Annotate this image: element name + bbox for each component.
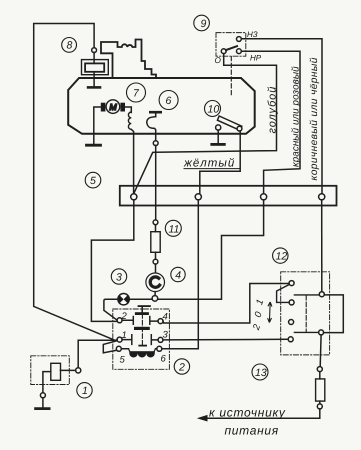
wire: glow switch terminal 3 to ignition switch 12 terminal 4 xyxy=(163,338,288,341)
breaker moving arm xyxy=(147,117,156,141)
wire: NZ contact to brown wire down to block xyxy=(241,39,322,194)
svg-text:голубой: голубой xyxy=(267,86,279,134)
glow plug 1 dash-dot housing xyxy=(31,356,70,385)
ignition switch movable contacts xyxy=(294,295,319,333)
breaker contact 6 : fixed contact bar xyxy=(150,111,160,114)
glow/start switch 2 dash-dot housing xyxy=(113,309,170,369)
wire: coil down to terminal block xyxy=(131,129,133,193)
svg-text:5: 5 xyxy=(90,175,96,187)
circled item numbers xyxy=(62,15,288,398)
text: glow switch terminal numbers xyxy=(120,311,169,366)
svg-text:4: 4 xyxy=(175,270,181,282)
svg-text:M: M xyxy=(109,102,117,112)
svg-text:10: 10 xyxy=(208,104,220,116)
wire: glow switch terminal 4 up-over to ignition switch 12 xyxy=(163,284,289,324)
wire: sensor 1 to terminal 1 of glow switch xyxy=(78,340,117,368)
svg-text:12: 12 xyxy=(276,251,288,263)
svg-text:9: 9 xyxy=(201,18,207,30)
ground (spark plug to engine mass) xyxy=(88,86,100,89)
wire: lamp to glow switch terminal 2 xyxy=(104,299,118,320)
svg-text:3: 3 xyxy=(116,272,122,284)
switch 9 dash-dot housing xyxy=(216,33,246,57)
wire: block circle4 down to ignition switch 12 terminal xyxy=(321,200,323,292)
ignition switch 12 dash-dot housing xyxy=(281,272,330,355)
ignition switch lever xyxy=(277,285,290,303)
svg-text:НР: НР xyxy=(250,54,262,63)
svg-text:11: 11 xyxy=(169,224,180,236)
wire: lever right terminal down, elbow to terminal block circle 2 xyxy=(200,131,240,194)
terminal block 5 (connector strip) xyxy=(120,186,337,206)
glow switch contact row 1-3 xyxy=(122,327,158,345)
jumper strap terminals 1-5 xyxy=(103,341,116,353)
wire to power source with arrow xyxy=(207,409,320,418)
jumper on right side of switch 12 xyxy=(324,295,344,333)
svg-text:1: 1 xyxy=(122,330,127,341)
wire: common O down and to breaker (blue/yellow wire) xyxy=(134,54,277,194)
wire: lever left terminal to ground xyxy=(217,130,219,143)
engine body outline xyxy=(68,78,255,134)
wire: switch 12 to fuse 13 xyxy=(319,335,322,367)
svg-text:коричневый или чёрный: коричневый или чёрный xyxy=(309,57,320,180)
svg-text:6: 6 xyxy=(166,95,172,107)
wire: block circle2 down to glow switch terminal 6 xyxy=(162,200,199,349)
wire: motor left brush to ground xyxy=(94,107,102,143)
svg-text:4: 4 xyxy=(163,312,168,323)
suppression resistor 8 (spark-plug screen box) xyxy=(82,53,109,87)
mechanical link in glow switch xyxy=(141,307,143,345)
wire: motor right brush to choke coil xyxy=(125,107,132,113)
svg-text:НЗ: НЗ xyxy=(247,30,258,39)
control lamp 3 (warning light) xyxy=(118,294,129,305)
ground (lever) xyxy=(212,143,225,146)
switch 9 contacts xyxy=(221,37,241,54)
wire: block circle3 down elbow to indicator wire xyxy=(157,200,263,299)
magneto silhouette on engine top xyxy=(101,40,156,79)
ignition switch terminals xyxy=(288,281,324,342)
svg-text:питания: питания xyxy=(225,424,279,438)
glow plug indicator 4 xyxy=(146,264,165,301)
svg-text:6: 6 xyxy=(161,354,167,365)
ground (sensor) xyxy=(36,407,50,410)
wire: block circle1 down elbow to glow switch terminal 2 xyxy=(91,200,133,322)
wire: breaker terminal down through terminal block to resistor chain xyxy=(155,146,157,220)
glow switch terminals xyxy=(116,318,163,352)
ground (motor) xyxy=(87,144,101,147)
svg-text:О: О xyxy=(215,56,222,65)
svg-text:жёлтый: жёлтый xyxy=(183,158,235,170)
svg-text:5: 5 xyxy=(120,355,126,366)
svg-text:красный или розовый: красный или розовый xyxy=(291,66,302,167)
wire: top-left long wire from spark plug to connector of terminal 1 xyxy=(34,24,116,341)
mechanical dashed link from switch 9 to lever 10 xyxy=(230,57,232,98)
node: sensor connector xyxy=(76,368,81,373)
glow switch contact row 2-4 xyxy=(122,305,158,324)
svg-text:к источнику: к источнику xyxy=(209,406,286,420)
svg-text:13: 13 xyxy=(255,367,267,379)
svg-text:8: 8 xyxy=(67,40,73,52)
svg-text:3: 3 xyxy=(163,330,169,341)
node: breaker terminal xyxy=(153,141,158,146)
sensor 1 element xyxy=(40,363,75,407)
text: ignition switch positions 2 0 1 with arrow xyxy=(251,298,272,332)
svg-text:1: 1 xyxy=(82,385,88,397)
inductor choke coil xyxy=(128,112,131,129)
resistor 11 (ballast) xyxy=(151,220,160,264)
svg-text:2: 2 xyxy=(178,362,185,374)
node: spark plug terminal xyxy=(92,48,97,53)
fuse 13 (in supply lead) xyxy=(316,367,325,409)
magneto armature M (item 7) xyxy=(101,100,125,114)
stop lever 10 (cam) xyxy=(216,116,242,131)
svg-text:2: 2 xyxy=(121,311,128,322)
heater coil row 5-6 xyxy=(121,349,157,358)
wire: lamp to indicator node xyxy=(129,298,152,300)
wire: NR contact down red wire to block circle 3 xyxy=(241,51,300,193)
